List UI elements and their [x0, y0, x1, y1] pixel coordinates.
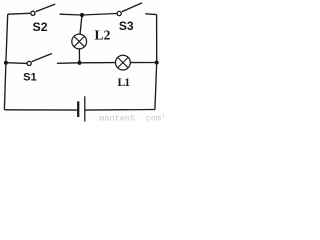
svg-text:L2: L2 [95, 27, 111, 42]
svg-text:L1: L1 [118, 77, 131, 89]
svg-text:S1: S1 [23, 72, 37, 84]
svg-text:manten5. com': manten5. com' [99, 114, 164, 122]
svg-text:S3: S3 [119, 19, 134, 33]
svg-text:S2: S2 [33, 20, 48, 34]
